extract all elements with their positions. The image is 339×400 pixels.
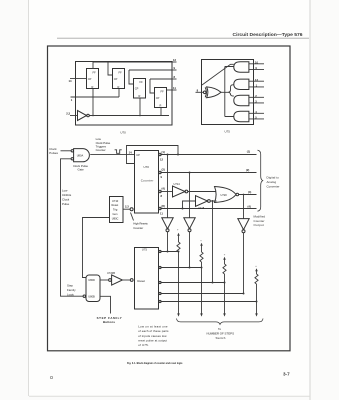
arrowhead column 1 bbox=[177, 313, 180, 316]
NOR gate U720 bbox=[215, 187, 239, 203]
wire column 4 to switch bbox=[256, 284, 258, 316]
svg-text:U80D: U80D bbox=[88, 278, 95, 282]
svg-text:Output: Output bbox=[254, 223, 264, 227]
output rail (4) bbox=[160, 191, 172, 193]
AND gate C bbox=[234, 95, 249, 105]
svg-text:CP: CP bbox=[136, 153, 140, 157]
svg-text:NUMBER OF STEPS: NUMBER OF STEPS bbox=[207, 331, 235, 335]
wire column 3 to switch bbox=[224, 274, 226, 316]
bubble U80B input bbox=[83, 295, 85, 297]
inverter U718 bbox=[196, 196, 211, 210]
registered trademark dot bbox=[50, 376, 52, 378]
svg-text:U714: U714 bbox=[174, 182, 181, 186]
pin 8 input wire bbox=[196, 91, 204, 93]
svg-text:of each of these pairs: of each of these pairs bbox=[138, 329, 169, 333]
wire FF4 Q to pin 11 bbox=[167, 89, 177, 91]
output rail (1) bbox=[160, 154, 256, 156]
pin bump (8) bbox=[159, 207, 161, 209]
svg-text:reset pulse at output: reset pulse at output bbox=[138, 339, 167, 343]
supply arrow column 2 bbox=[200, 240, 203, 252]
svg-text:Gen: Gen bbox=[113, 212, 118, 216]
resistor R1 bbox=[177, 242, 180, 252]
svg-text:FF: FF bbox=[161, 90, 165, 94]
wire U710 input from step logic bbox=[83, 218, 110, 278]
wire rail8 tap to U718 bbox=[183, 201, 196, 209]
flip-flop FF4 bbox=[155, 88, 167, 108]
brace digital-to-analog bbox=[258, 150, 263, 211]
svg-text:FF: FF bbox=[119, 71, 123, 75]
gate B pin lines bbox=[249, 81, 264, 87]
pin 14 input wire bbox=[70, 78, 87, 80]
svg-text:Reset: Reset bbox=[112, 203, 119, 207]
wire T1 output down bbox=[167, 232, 169, 252]
svg-text:(4): (4) bbox=[162, 187, 165, 191]
svg-text:Pulses: Pulses bbox=[49, 151, 58, 155]
svg-text:CP: CP bbox=[156, 96, 160, 100]
driver T1 bbox=[162, 218, 173, 232]
U710 box bbox=[110, 197, 124, 223]
svg-text:Pulse: Pulse bbox=[62, 202, 70, 206]
arrowhead column 4 bbox=[255, 313, 258, 316]
input pin p2 bbox=[159, 266, 203, 268]
svg-text:(1): (1) bbox=[247, 150, 250, 154]
wire FF3 Q to pin 8 and FF4 CP bbox=[150, 79, 172, 93]
output rail (8) bbox=[160, 208, 256, 210]
svg-text:Digital to: Digital to bbox=[267, 175, 280, 179]
wire FF1 Q to pin 12 bbox=[93, 62, 172, 75]
input pin p4 bbox=[159, 292, 245, 294]
svg-text:U80B: U80B bbox=[88, 294, 95, 298]
junction dot T1 bbox=[167, 154, 169, 156]
svg-text:(2): (2) bbox=[162, 168, 165, 172]
svg-text:10: 10 bbox=[255, 60, 258, 64]
svg-text:CP: CP bbox=[114, 77, 118, 81]
junction dot feedback bbox=[177, 154, 179, 156]
reset pin bubble bbox=[130, 279, 133, 282]
reset bus wire bbox=[89, 89, 169, 116]
driver T3 bbox=[238, 219, 249, 233]
svg-text:Low: Low bbox=[62, 188, 68, 192]
svg-text:of U75.: of U75. bbox=[138, 343, 149, 347]
gate A pin lines bbox=[249, 64, 264, 70]
inverter U720B bbox=[107, 271, 122, 285]
IC outline U75 (gate detail) bbox=[202, 60, 254, 125]
svg-text:U70: U70 bbox=[144, 165, 150, 169]
svg-text:Reset: Reset bbox=[137, 279, 145, 283]
svg-text:FF: FF bbox=[93, 71, 97, 75]
svg-text:2,3: 2,3 bbox=[125, 205, 129, 209]
svg-text:R: R bbox=[92, 85, 94, 89]
svg-text:Buttons: Buttons bbox=[103, 320, 115, 324]
input pin p1 bbox=[159, 250, 180, 252]
svg-text:12: 12 bbox=[173, 58, 176, 62]
svg-text:14: 14 bbox=[69, 79, 72, 83]
supply arrow column 3 bbox=[223, 254, 226, 264]
svg-text:Circuit Description—Type 576: Circuit Description—Type 576 bbox=[233, 32, 304, 37]
svg-text:Family: Family bbox=[67, 288, 76, 292]
wire T2 output down bbox=[189, 232, 191, 268]
resistor R3 bbox=[223, 264, 226, 274]
svg-text:CP: CP bbox=[88, 77, 92, 81]
svg-text:(4): (4) bbox=[248, 204, 251, 208]
wire U80D output to U720B bbox=[100, 279, 108, 281]
driver T2 bbox=[184, 218, 195, 232]
resistor R2 bbox=[200, 252, 203, 262]
gate pair U80D U80B bbox=[86, 275, 100, 302]
svg-text:Inhibits: Inhibits bbox=[62, 193, 72, 197]
note text under U75 bbox=[138, 324, 169, 347]
junction dot rail8 tap bbox=[182, 208, 184, 210]
wire column 2 to switch bbox=[201, 262, 203, 316]
arrowhead column 3 bbox=[223, 313, 226, 316]
supply arrow column 4 bbox=[255, 265, 258, 274]
wire clock input bbox=[61, 150, 72, 152]
svg-text:R: R bbox=[160, 104, 162, 108]
wire U720 output bbox=[239, 194, 257, 196]
wire T3 output down bbox=[243, 233, 245, 294]
svg-text:(2): (2) bbox=[246, 168, 249, 172]
wire U718 out to U720 bbox=[210, 200, 216, 202]
figure frame bbox=[48, 46, 291, 351]
junction dots on reset bus bbox=[92, 115, 94, 117]
pin bump (1) bbox=[159, 153, 161, 155]
wire rail1 down to driver T1 bbox=[167, 155, 169, 218]
wire U718 junction down bbox=[212, 201, 214, 283]
pin 9 stub bbox=[172, 69, 177, 71]
svg-text:(4): (4) bbox=[248, 190, 251, 194]
svg-text:Trig: Trig bbox=[113, 208, 118, 212]
pins 2,3 input wire bbox=[70, 115, 78, 117]
svg-text:14: 14 bbox=[129, 151, 132, 155]
junction dot U720 out bbox=[243, 194, 245, 196]
NAND gate U80A bbox=[71, 149, 89, 162]
svg-text:Gate: Gate bbox=[78, 168, 85, 172]
svg-text:To: To bbox=[218, 327, 221, 331]
header rule bbox=[57, 37, 309, 39]
svg-text:12: 12 bbox=[160, 157, 163, 161]
svg-text:Low on at least one: Low on at least one bbox=[138, 324, 168, 328]
inverter (U70 clock buffer) bbox=[78, 111, 90, 121]
svg-text:Step: Step bbox=[67, 283, 73, 287]
svg-text:Counter: Counter bbox=[96, 148, 106, 152]
svg-text:U80A: U80A bbox=[77, 153, 84, 157]
svg-text:FF: FF bbox=[140, 80, 144, 84]
svg-text:Counter: Counter bbox=[141, 179, 154, 183]
svg-text:CP: CP bbox=[135, 87, 139, 91]
wire U80A output to counter CP bbox=[90, 153, 135, 155]
svg-text:Analog: Analog bbox=[267, 180, 277, 184]
wire box edge diagonal to gate A bbox=[202, 64, 234, 85]
wire rail2 down to driver T2 bbox=[189, 173, 191, 218]
input pin p3 bbox=[159, 281, 226, 283]
counter box U70 bbox=[135, 151, 159, 214]
svg-text:U720: U720 bbox=[221, 193, 228, 197]
flip-flop FF3 bbox=[134, 79, 146, 99]
wire U714 out to U720 bbox=[188, 191, 216, 193]
IC outline U70 (flip-flop detail) bbox=[76, 62, 173, 126]
arrowhead column 2 bbox=[200, 313, 203, 316]
XOR output trunk wire bbox=[221, 67, 234, 117]
svg-text:(1): (1) bbox=[162, 150, 165, 154]
svg-text:Switch: Switch bbox=[216, 336, 226, 340]
low pulse waveform symbol bbox=[115, 150, 122, 154]
wire FF2 Q to pin 9 and FF3 CP bbox=[129, 70, 172, 84]
svg-text:U710: U710 bbox=[112, 199, 119, 203]
svg-text:of inputs causes low: of inputs causes low bbox=[138, 334, 167, 338]
flip-flop FF2 bbox=[113, 69, 125, 90]
svg-text:U80C: U80C bbox=[112, 216, 119, 220]
AND gate B bbox=[234, 79, 249, 89]
wire U80B to step family buttons bbox=[100, 296, 111, 313]
pin bump (2) bbox=[159, 171, 161, 173]
svg-text:(8): (8) bbox=[162, 204, 165, 208]
svg-text:U75: U75 bbox=[225, 130, 231, 134]
svg-text:STEP FAMILY: STEP FAMILY bbox=[97, 316, 122, 320]
svg-text:U70: U70 bbox=[120, 130, 126, 134]
junction dot U718 column bbox=[212, 200, 214, 202]
svg-text:13: 13 bbox=[255, 78, 258, 82]
underbrace to switch bbox=[177, 319, 264, 325]
trunk fork to middle gates bbox=[228, 85, 234, 96]
junction dot T2 bbox=[189, 172, 191, 174]
reset input bubble bbox=[130, 208, 133, 211]
svg-text:3-7: 3-7 bbox=[283, 371, 290, 376]
wire column 1 to switch bbox=[178, 252, 180, 316]
flip-flop FF1 bbox=[87, 69, 99, 90]
svg-text:U718: U718 bbox=[198, 206, 205, 210]
gate D pin lines bbox=[249, 113, 264, 119]
pin 12 stub bbox=[172, 61, 177, 63]
svg-text:Counter: Counter bbox=[133, 226, 143, 230]
resistor R4 bbox=[255, 274, 258, 284]
svg-text:2,3: 2,3 bbox=[66, 112, 70, 116]
feedback wire pin12 to pin1 bbox=[127, 146, 179, 164]
pin 1 wire bbox=[71, 89, 120, 97]
AND gate D bbox=[234, 111, 249, 121]
svg-text:R: R bbox=[118, 85, 120, 89]
output rail (2) bbox=[160, 172, 256, 174]
XOR gate bbox=[205, 87, 221, 98]
pin bump (4) bbox=[159, 190, 161, 192]
AND gate A bbox=[234, 62, 249, 72]
wire U720B out to U75 reset bbox=[122, 279, 130, 281]
XOR gate input bubble bbox=[203, 91, 206, 94]
supply arrow column 1 bbox=[177, 229, 180, 242]
svg-text:Converter: Converter bbox=[267, 185, 280, 189]
svg-text:Clock: Clock bbox=[62, 198, 70, 202]
wire U710 output to counter reset bbox=[124, 208, 131, 210]
gate C pin lines bbox=[249, 97, 264, 103]
U75 box bbox=[135, 248, 159, 310]
svg-text:Logic: Logic bbox=[67, 293, 74, 297]
pin 8 stub bbox=[172, 78, 177, 80]
inverter U714 bbox=[173, 182, 188, 197]
svg-text:U75: U75 bbox=[142, 247, 148, 251]
svg-text:Fig. 3-1. Block diagram of cou: Fig. 3-1. Block diagram of counter and r… bbox=[127, 361, 183, 365]
wire inhibit input going down bbox=[61, 159, 84, 296]
wire U720 out down to driver T3 bbox=[243, 195, 245, 219]
High Resets Counter label with pointer bbox=[131, 213, 149, 230]
input pin p5 bbox=[159, 300, 258, 302]
svg-text:R: R bbox=[139, 94, 141, 98]
